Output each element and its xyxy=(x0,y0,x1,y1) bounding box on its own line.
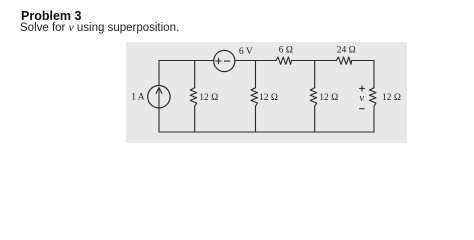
svg-text:12 Ω: 12 Ω xyxy=(199,93,218,103)
svg-text:12 Ω: 12 Ω xyxy=(382,93,401,103)
svg-text:1 A: 1 A xyxy=(131,93,145,103)
svg-text:6 Ω: 6 Ω xyxy=(279,46,293,56)
svg-text:v: v xyxy=(359,93,364,104)
svg-text:12 Ω: 12 Ω xyxy=(259,93,278,103)
svg-text:12 Ω: 12 Ω xyxy=(319,93,338,103)
svg-text:6 V: 6 V xyxy=(239,47,253,57)
svg-text:24 Ω: 24 Ω xyxy=(337,46,356,56)
